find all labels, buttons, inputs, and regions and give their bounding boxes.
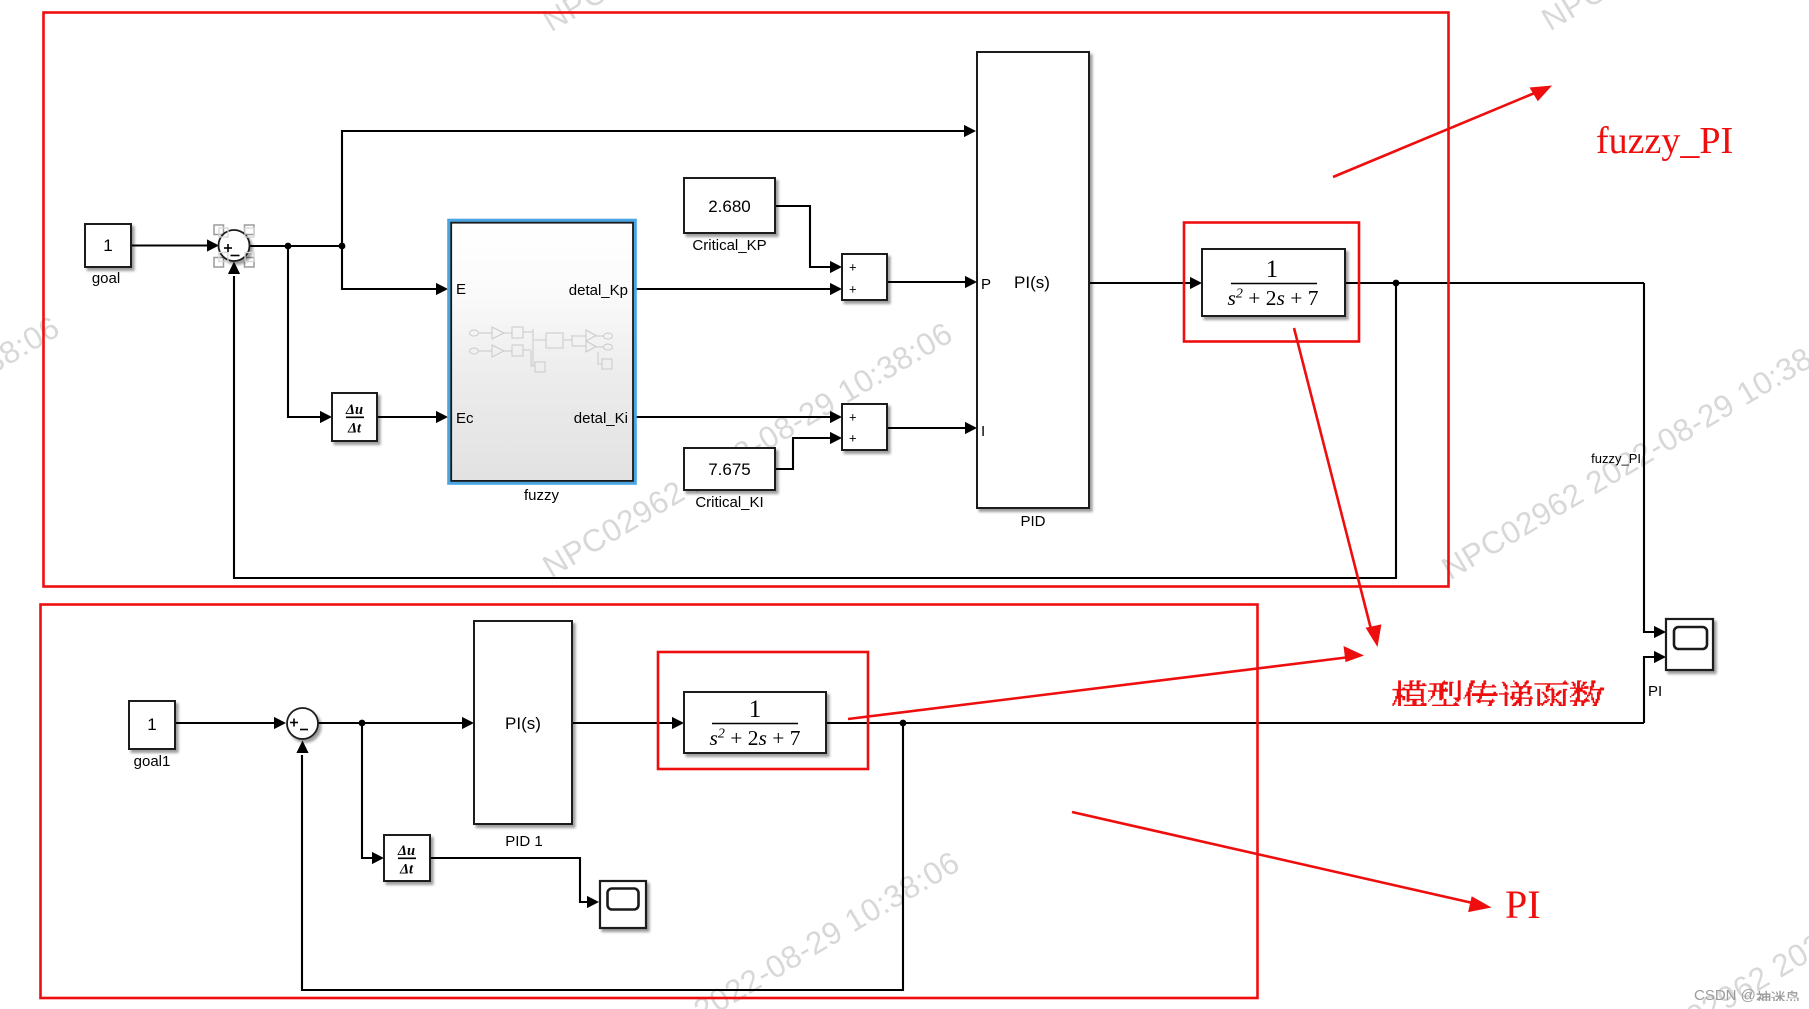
svg-text:Δt: Δt <box>347 421 362 437</box>
svg-text:1: 1 <box>1266 256 1279 283</box>
svg-text:Δu: Δu <box>345 402 363 418</box>
svg-text:fuzzy_PI: fuzzy_PI <box>1596 120 1733 162</box>
svg-text:PI: PI <box>1648 683 1662 700</box>
svg-text:PID: PID <box>1020 513 1045 530</box>
svg-text:Δu: Δu <box>397 843 415 859</box>
svg-text:+: + <box>849 431 857 446</box>
svg-text:Critical_KP: Critical_KP <box>692 237 766 254</box>
svg-text:+: + <box>849 282 857 297</box>
svg-text:fuzzy_PI: fuzzy_PI <box>1591 451 1641 466</box>
svg-text:goal: goal <box>92 270 120 287</box>
svg-text:+: + <box>849 260 857 275</box>
svg-text:CSDN @: CSDN @ <box>1694 987 1756 1004</box>
svg-text:1: 1 <box>749 696 762 723</box>
svg-text:detal_Kp: detal_Kp <box>569 282 628 299</box>
svg-text:fuzzy: fuzzy <box>524 487 560 504</box>
svg-text:Ec: Ec <box>456 410 474 427</box>
svg-text:2.680: 2.680 <box>708 197 751 216</box>
svg-text:goal1: goal1 <box>134 753 171 770</box>
svg-text:PI(s): PI(s) <box>505 714 541 733</box>
svg-text:I: I <box>981 423 985 440</box>
svg-text:1: 1 <box>147 715 156 734</box>
svg-text:P: P <box>981 276 991 293</box>
svg-text:detal_Ki: detal_Ki <box>574 410 628 427</box>
svg-text:Δt: Δt <box>399 862 414 878</box>
svg-text:PID 1: PID 1 <box>505 833 543 850</box>
svg-text:Critical_KI: Critical_KI <box>695 494 763 511</box>
svg-text:1: 1 <box>103 236 112 255</box>
svg-text:PI(s): PI(s) <box>1014 273 1050 292</box>
svg-text:7.675: 7.675 <box>708 460 751 479</box>
svg-text:E: E <box>456 281 466 298</box>
svg-text:+: + <box>849 410 857 425</box>
svg-text:PI: PI <box>1505 882 1541 927</box>
